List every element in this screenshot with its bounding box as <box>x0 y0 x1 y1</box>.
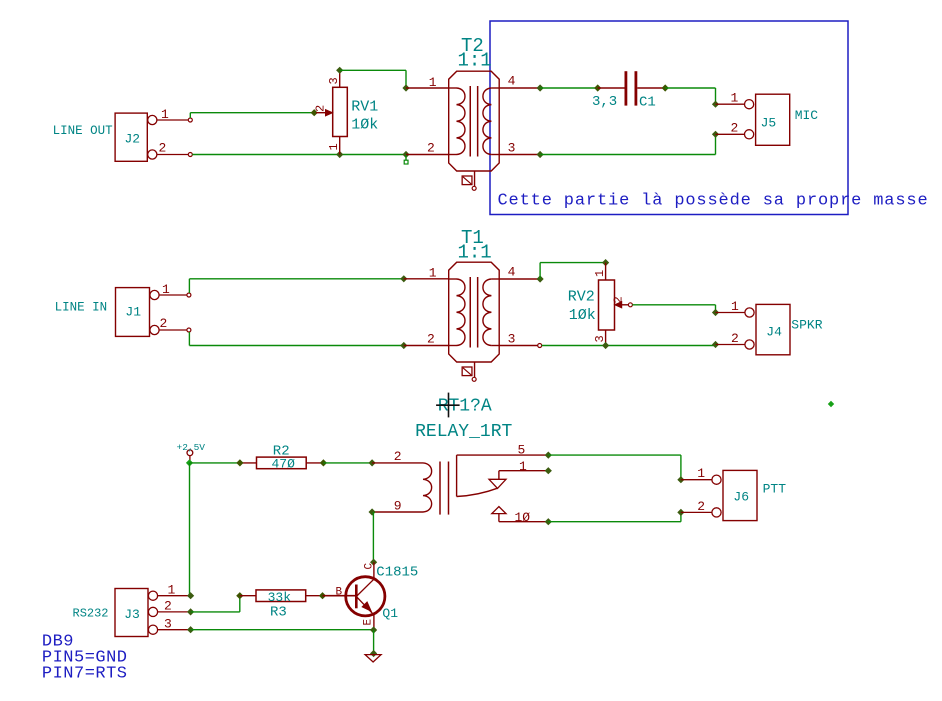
junction +2,5V rail <box>186 459 193 466</box>
junction T1 pin2 <box>400 342 407 349</box>
junction relay pin5 <box>545 452 552 459</box>
svg-text:MIC: MIC <box>795 108 819 123</box>
wire relay.5 to J6.1 <box>548 454 681 456</box>
svg-text:SPKR: SPKR <box>791 317 822 332</box>
connector J5 <box>745 94 790 145</box>
wire J2.1 to RV1 wiper <box>190 112 314 114</box>
junction R3 left <box>236 592 243 599</box>
svg-text:J6: J6 <box>733 490 749 505</box>
connector J6 <box>712 470 757 520</box>
svg-text:1: 1 <box>327 143 341 150</box>
junction J4 pin2 <box>712 341 719 348</box>
svg-text:+2,5V: +2,5V <box>177 442 206 453</box>
junction Q1 collector <box>370 559 377 566</box>
wire J3.3 to Q1 emitter <box>191 629 374 631</box>
svg-text:2: 2 <box>612 296 626 303</box>
T2 pin1 lead <box>406 87 449 89</box>
svg-text:C1: C1 <box>639 95 656 111</box>
junction T2 pin1 <box>402 84 409 91</box>
junction J3 pin3 <box>187 626 194 633</box>
wire relay.9 to Q1 collector <box>372 512 374 562</box>
junction R2 left <box>236 459 243 466</box>
junction T2 pin4 <box>537 84 544 91</box>
svg-text:3,3: 3,3 <box>592 94 617 110</box>
junction C1 left <box>594 84 601 91</box>
svg-text:4: 4 <box>508 265 516 280</box>
wire RV1.3 to T2.1 corner <box>340 69 406 71</box>
svg-text:1: 1 <box>731 299 739 314</box>
J2 pin 2 lead <box>157 154 188 156</box>
potentiometer RV1 <box>316 70 347 154</box>
junction R3 right <box>319 592 326 599</box>
T1 pin3 lead <box>499 345 537 347</box>
wire RV2 wiper to J4.1 <box>632 304 715 306</box>
junction T1 pin1 <box>400 275 407 282</box>
svg-text:C: C <box>364 563 376 570</box>
junction relay pin2 <box>369 459 376 466</box>
svg-text:RELAY_1RT: RELAY_1RT <box>415 422 512 442</box>
J5 pin1 lead <box>716 103 745 105</box>
svg-text:47Ø: 47Ø <box>272 457 296 472</box>
wire J2.1 up-jog <box>189 113 191 118</box>
svg-text:2: 2 <box>731 331 739 346</box>
junction J4 pin1 <box>712 309 719 316</box>
junction at ground <box>370 650 377 657</box>
svg-text:J4: J4 <box>766 325 782 340</box>
svg-text:1Øk: 1Øk <box>569 307 596 324</box>
potentiometer RV2 <box>599 263 633 346</box>
svg-text:1: 1 <box>429 75 437 90</box>
junction RV1 pin3 <box>336 67 343 74</box>
svg-text:4: 4 <box>508 74 516 89</box>
svg-text:1: 1 <box>697 466 705 481</box>
relay ref RT1?A with cursor crosshair <box>436 393 492 418</box>
junction J3 pin2 <box>187 608 194 615</box>
svg-text:1Øk: 1Øk <box>351 116 378 133</box>
svg-text:1: 1 <box>731 91 739 106</box>
svg-text:1Ø: 1Ø <box>515 510 531 525</box>
J5 pin2 lead <box>716 133 745 135</box>
relay K1 switch contacts <box>457 455 549 522</box>
svg-text:J1: J1 <box>125 304 141 319</box>
junction J3 pin1 <box>187 592 194 599</box>
svg-text:RV1: RV1 <box>351 98 378 115</box>
T2 pin3 lead <box>499 154 540 156</box>
junction J6 pin2 <box>677 509 684 516</box>
wire T1.3 to J4.2 rail <box>542 345 716 347</box>
svg-text:33k: 33k <box>268 590 292 605</box>
junction J6 pin1 <box>677 476 684 483</box>
junction RV1 pin1 <box>336 151 343 158</box>
svg-text:E: E <box>363 619 375 626</box>
wire T2.4 to C1 <box>540 87 598 89</box>
J2 pin 1 lead <box>157 119 188 121</box>
svg-text:Cette partie là possède sa pro: Cette partie là possède sa propre masse <box>498 192 929 211</box>
connector J2 <box>115 113 157 161</box>
T1 pin1 lead <box>404 278 449 280</box>
J6 pin1 lead <box>681 479 712 481</box>
blue annotation box (isolated ground region) <box>490 21 848 215</box>
svg-text:2: 2 <box>427 332 435 347</box>
wire T1.4 to RV2.1 <box>539 263 541 279</box>
junction J5 pin2 <box>712 131 719 138</box>
svg-text:9: 9 <box>394 498 402 513</box>
junction Q1 emitter <box>370 626 377 633</box>
svg-text:2: 2 <box>160 316 168 331</box>
J1 pin 2 lead <box>159 329 186 331</box>
transformer T2 <box>449 71 500 190</box>
svg-text:Q1: Q1 <box>382 606 398 621</box>
junction relay pin10 <box>545 518 552 525</box>
svg-text:3: 3 <box>508 141 516 156</box>
svg-text:1: 1 <box>593 270 607 277</box>
wire J2.2 to RV1.1 rail <box>192 154 406 156</box>
T2 pin2 lead <box>406 154 449 156</box>
wire T2.3 to J5.2 <box>537 151 544 158</box>
svg-text:3: 3 <box>327 77 341 84</box>
svg-text:3: 3 <box>593 335 607 342</box>
svg-text:1: 1 <box>429 266 437 281</box>
svg-text:1:1: 1:1 <box>458 50 492 72</box>
svg-text:RV2: RV2 <box>568 289 595 306</box>
svg-text:2: 2 <box>427 141 435 156</box>
left rail +2,5V down to J3.1 <box>189 463 191 596</box>
svg-text:C1815: C1815 <box>376 564 418 580</box>
J4 pin2 lead <box>716 344 745 346</box>
junction RV2 pin3 <box>602 342 609 349</box>
T1 pin2 lead <box>404 345 449 347</box>
power symbol +2,5V <box>187 450 193 462</box>
svg-text:2: 2 <box>697 499 705 514</box>
junction T1 pin4 <box>537 275 544 282</box>
svg-text:RT1?A: RT1?A <box>438 397 492 417</box>
wire C1 to J5.1 <box>665 87 715 89</box>
resistor R3 <box>240 590 323 602</box>
J6 pin2 lead <box>681 511 712 513</box>
wire emitter to ground <box>373 630 375 654</box>
capacitor C1 <box>598 71 666 105</box>
svg-text:B: B <box>336 587 343 599</box>
transformer T1 <box>449 262 500 381</box>
svg-text:2: 2 <box>394 449 402 464</box>
J1 pin 1 lead <box>159 294 186 296</box>
wire J1.2 to T1.2 <box>188 332 190 346</box>
J4 pin1 lead <box>716 312 745 314</box>
svg-text:2: 2 <box>314 105 328 112</box>
connector J1 <box>116 288 160 337</box>
J3 pin 3 lead <box>158 629 191 631</box>
svg-text:2: 2 <box>731 121 739 136</box>
ground symbol <box>365 655 381 662</box>
svg-text:5: 5 <box>518 443 526 458</box>
junction at RV1 wiper <box>311 109 318 116</box>
J3 pin 1 lead <box>158 595 191 597</box>
svg-text:R3: R3 <box>270 605 287 621</box>
T2 pin4 lead <box>499 87 540 89</box>
wire relay.10 to J6.2 <box>548 521 681 523</box>
wire +2,5V to R2 <box>190 462 240 464</box>
relay K1 coil <box>372 462 448 515</box>
svg-text:1: 1 <box>519 459 527 474</box>
svg-text:J5: J5 <box>761 115 777 130</box>
connector J4 <box>745 304 790 354</box>
wire R2 to relay coil pin2 <box>323 462 372 464</box>
junction R2 right <box>320 459 327 466</box>
svg-text:PIN7=RTS: PIN7=RTS <box>42 665 128 684</box>
wire J3.2 to R3 <box>191 611 240 613</box>
connector J3 <box>115 589 158 637</box>
J3 pin 2 lead <box>158 611 191 613</box>
junction RV2 pin1 <box>602 259 609 266</box>
svg-text:LINE IN: LINE IN <box>55 301 108 315</box>
junction C1 right <box>662 84 669 91</box>
transistor Q1 <box>323 562 385 630</box>
T1 pin4 lead <box>499 278 540 280</box>
svg-text:3: 3 <box>508 332 516 347</box>
svg-text:2: 2 <box>159 141 167 156</box>
svg-text:RS232: RS232 <box>73 606 109 620</box>
svg-text:LINE OUT: LINE OUT <box>53 124 114 138</box>
stray junction dot <box>828 401 834 407</box>
svg-text:J3: J3 <box>124 607 140 622</box>
junction relay pin9 <box>369 508 376 515</box>
svg-text:PTT: PTT <box>763 482 787 497</box>
resistor R2 <box>240 457 324 469</box>
junction T2 pin2 and stub <box>402 151 409 158</box>
svg-text:1:1: 1:1 <box>458 242 492 264</box>
junction relay pin1 <box>545 467 552 474</box>
wire J1.1 to T1.1 <box>188 279 190 293</box>
junction J5 pin1 <box>712 101 719 108</box>
svg-text:J2: J2 <box>125 131 141 146</box>
